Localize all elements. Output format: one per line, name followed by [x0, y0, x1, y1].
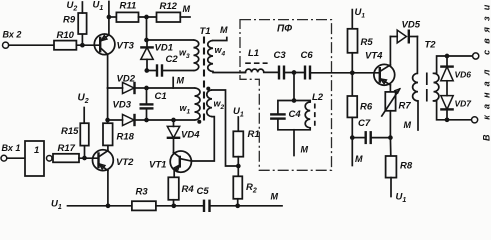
wire w4 top to common M [213, 38, 227, 41]
power stub U2 middle [83, 108, 85, 124]
transistor VT2 [93, 150, 135, 171]
wire VT2 emitter to rail [107, 171, 109, 206]
wire node to R11 [109, 16, 117, 18]
wire R12 to common M [180, 16, 190, 18]
wire secondary bottom to output rail [434, 101, 472, 120]
capacitor C3 [278, 66, 280, 80]
svg-text:C6: C6 [301, 50, 314, 61]
output terminal top [473, 53, 479, 59]
T1 winding w3 [194, 40, 199, 71]
w1 polarity dot [197, 120, 201, 124]
wire R10 to VT3 base, node with R9 [76, 44, 100, 46]
resistor R10 [54, 41, 76, 50]
diode VD7 [441, 96, 453, 110]
svg-text:L2: L2 [312, 92, 324, 103]
resistor R17 [53, 154, 79, 163]
svg-text:U2: U2 [78, 93, 89, 106]
input terminal Вх2 [3, 42, 9, 48]
svg-text:М: М [301, 145, 309, 155]
svg-text:U1: U1 [93, 0, 104, 12]
wire w4 bottom to filter input [213, 72, 245, 73]
capacitor C2 [147, 70, 157, 72]
wire R1 to R2, node to w2 [237, 157, 239, 177]
wire Вх1 to gate [7, 157, 27, 159]
svg-text:Вх 1: Вх 1 [2, 143, 21, 153]
svg-text:М: М [404, 120, 412, 130]
resistor R8 [389, 138, 391, 156]
svg-text:R17: R17 [58, 143, 76, 154]
resistor R1 [233, 131, 243, 156]
wire VT4 collector riser [389, 37, 391, 65]
svg-text:1: 1 [34, 145, 39, 156]
svg-text:R3: R3 [136, 187, 149, 198]
svg-text:R5: R5 [361, 37, 374, 48]
svg-text:w2: w2 [214, 99, 225, 112]
diode VD6 [446, 56, 448, 66]
resistor R6 [351, 73, 353, 96]
transistor VT4 [365, 51, 395, 86]
diode VD5 [390, 36, 397, 38]
svg-text:R15: R15 [61, 126, 79, 137]
wire to R18 [107, 120, 109, 123]
svg-text:T2: T2 [425, 40, 437, 51]
wire w3 top lead [147, 39, 194, 41]
wire w2 bottom to VT1 collector [191, 117, 214, 161]
common stem M below C7 [351, 138, 353, 166]
svg-text:В канал связи: В канал связи [482, 0, 491, 141]
svg-text:VD3: VD3 [113, 100, 132, 111]
svg-text:VT1: VT1 [149, 160, 166, 171]
T1 winding w4 [208, 41, 213, 72]
svg-text:М: М [177, 76, 185, 86]
wire Вх2 to R10 [9, 44, 54, 46]
w2 polarity dot [206, 87, 210, 91]
wire VT3 emitter down [107, 54, 109, 88]
svg-text:w3: w3 [179, 48, 190, 61]
rail R3 to C5 [156, 205, 204, 207]
rail C5 to end, node R2, label M [210, 205, 283, 207]
resistor R3 [132, 201, 156, 210]
wire VD5 to T2 primary [416, 37, 418, 74]
svg-text:М: М [183, 4, 191, 14]
inductor L2 [305, 102, 310, 128]
svg-text:VT4: VT4 [365, 51, 383, 62]
wire R18 to VT2 collector [107, 145, 109, 150]
svg-text:R11: R11 [120, 1, 137, 12]
svg-text:C5: C5 [197, 186, 210, 197]
wire VT1 emitter to R4 [173, 171, 175, 177]
wire R11 to R12, node to VD1 branch [139, 16, 157, 18]
tank common stem, label M [293, 130, 295, 156]
svg-text:Вх 2: Вх 2 [3, 30, 22, 40]
svg-text:R6: R6 [360, 102, 373, 113]
power stub U1 (left) [108, 2, 110, 18]
variable resistor R7 [389, 85, 391, 92]
svg-text:R4: R4 [182, 184, 195, 195]
wire tank riser [293, 73, 295, 101]
svg-text:VD1: VD1 [155, 43, 173, 54]
svg-text:VT3: VT3 [117, 41, 135, 52]
resistor R4 [168, 177, 179, 200]
tank loop wires [278, 101, 310, 115]
svg-text:C3: C3 [274, 50, 287, 61]
capacitor C6 [304, 66, 306, 80]
capacitor C5 [203, 200, 205, 212]
svg-text:М: М [271, 192, 279, 202]
svg-text:C7: C7 [358, 118, 371, 129]
svg-text:U1: U1 [396, 192, 407, 205]
T1 winding w1 [195, 88, 201, 120]
svg-text:w1: w1 [180, 103, 191, 116]
wire R4 to bottom rail [173, 200, 175, 206]
svg-text:R7: R7 [399, 101, 412, 112]
svg-text:U1: U1 [355, 7, 366, 20]
svg-text:T1: T1 [200, 26, 211, 37]
logic gate 1 (inverter) [25, 141, 44, 176]
resistor R12 [157, 12, 181, 22]
bottom rail wire left [68, 205, 132, 207]
diode VD2 [108, 87, 123, 89]
svg-text:М: М [220, 25, 228, 35]
resistor R15 [84, 146, 86, 158]
wire R17 to VT2 base, node R15 [79, 157, 99, 159]
capacitor C7 [352, 137, 365, 139]
svg-text:R1: R1 [248, 129, 260, 140]
wire secondary top to output rail [434, 56, 473, 73]
svg-text:VD4: VD4 [181, 130, 200, 141]
resistor R5 [348, 29, 358, 53]
wire VT3 collector up to U1 rail [108, 17, 110, 35]
wire emitter column down to VD3 [107, 88, 109, 120]
resistor R11 [116, 12, 138, 22]
svg-text:L1: L1 [248, 48, 259, 59]
wire C6 out of box to VT4 base [310, 72, 380, 74]
svg-text:U1: U1 [51, 199, 62, 212]
T2 core [426, 73, 428, 102]
resistor R2 [233, 176, 242, 199]
wire VD2 node to w1 top, stub M [147, 87, 195, 89]
svg-text:VD7: VD7 [455, 99, 473, 109]
wire L1 to C3 [264, 71, 279, 73]
T2 secondary winding [434, 73, 439, 101]
resistor R18 [103, 123, 113, 145]
T1 core [203, 37, 205, 125]
svg-text:VD2: VD2 [117, 74, 136, 85]
svg-text:C4: C4 [289, 109, 302, 120]
svg-text:R12: R12 [160, 1, 178, 12]
power stub U1 right top [351, 10, 353, 29]
svg-text:w4: w4 [215, 45, 226, 58]
svg-text:М: М [355, 154, 363, 164]
wire w1 bottom lead [147, 119, 195, 121]
wire C3 to C6, node to tank [284, 72, 305, 74]
power stub U2 top [81, 2, 83, 13]
wire node down to VD1 / w3 top [146, 17, 148, 40]
svg-text:R8: R8 [400, 161, 413, 172]
capacitor C1 [146, 88, 148, 104]
wire R5 to base node [351, 53, 353, 73]
node VD1 anode / C2 [144, 68, 149, 73]
T2 primary winding [413, 73, 418, 101]
svg-text:C1: C1 [155, 91, 167, 102]
svg-text:C2: C2 [166, 54, 179, 65]
svg-text:ПФ: ПФ [277, 24, 292, 35]
input terminal Вх1 [1, 155, 7, 161]
wire R8 to U1 stub [390, 178, 392, 197]
svg-text:VD5: VD5 [402, 20, 421, 31]
inductor L1 [240, 71, 246, 73]
wire w2 top to R1/R2 divider node [212, 90, 238, 166]
svg-text:VD6: VD6 [455, 70, 472, 80]
svg-text:U2: U2 [67, 0, 78, 13]
T1 winding w2 [207, 90, 212, 117]
bandpass filter box ПФ [240, 20, 332, 171]
wire T2 primary bottom to common M [417, 101, 419, 130]
transistor VT3 [94, 34, 134, 55]
diode VD3 [108, 119, 123, 121]
output terminal bottom [472, 117, 478, 123]
svg-text:R2: R2 [246, 182, 257, 195]
wire VD6 to VD7 [446, 81, 448, 96]
svg-text:R10: R10 [57, 30, 75, 41]
diode VD4 [173, 120, 175, 126]
svg-text:VT2: VT2 [116, 157, 134, 168]
capacitor C4 [270, 113, 286, 115]
transistor VT1 [149, 151, 191, 172]
wire C2 to w3 bottom [162, 70, 194, 72]
svg-text:R18: R18 [117, 132, 135, 143]
wire R2 to rail [237, 199, 239, 206]
resistor R9 [81, 34, 83, 45]
svg-text:R9: R9 [63, 15, 76, 26]
diode VD1 [141, 47, 153, 59]
